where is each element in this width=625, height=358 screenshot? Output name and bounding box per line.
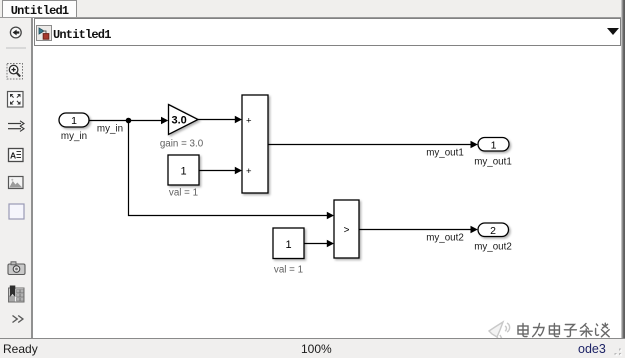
constant block C1 value 1 <box>168 155 199 185</box>
back button icon <box>10 27 21 38</box>
branch wire junction to relational <box>129 121 335 220</box>
wire relational to outport2 <box>359 226 478 234</box>
library icon <box>9 286 25 303</box>
speaker icon <box>489 322 510 340</box>
fit-to-view icon <box>8 92 24 108</box>
svg-text:+: + <box>246 166 252 177</box>
svg-text:val = 1: val = 1 <box>169 188 198 199</box>
svg-text:my_out1: my_out1 <box>474 157 512 168</box>
model canvas <box>33 46 621 338</box>
wire sum to outport1 <box>268 141 478 149</box>
svg-text:gain = 3.0: gain = 3.0 <box>160 139 204 150</box>
zoom tool icon <box>7 64 23 80</box>
svg-text:my_in: my_in <box>97 124 123 135</box>
area box icon <box>9 204 24 219</box>
gain block 3.0 <box>169 105 199 135</box>
annotation icon <box>9 149 24 162</box>
svg-text:my_out1: my_out1 <box>426 148 464 159</box>
svg-text:val = 1: val = 1 <box>274 265 303 276</box>
image icon <box>9 177 24 189</box>
expand chevrons <box>13 316 23 323</box>
constant block C2 value 1 <box>273 228 304 259</box>
svg-text:3.0: 3.0 <box>172 115 187 127</box>
svg-text:1: 1 <box>71 115 77 127</box>
sum block <box>242 95 268 193</box>
inport block my_in <box>59 113 89 127</box>
left tool palette <box>0 18 33 338</box>
子 <box>564 325 576 337</box>
relational operator block <box>334 200 359 258</box>
杂 <box>580 324 592 337</box>
status bar <box>0 338 625 358</box>
谈 <box>596 323 610 337</box>
力 <box>533 324 544 337</box>
breadcrumb bar <box>34 18 621 46</box>
signal arrows icon <box>8 121 24 132</box>
resize grip <box>608 344 624 357</box>
wire gain to sum <box>198 116 242 124</box>
电 <box>549 324 559 337</box>
wire inport to gain <box>89 117 168 125</box>
outport block 2 <box>478 223 509 237</box>
camera icon <box>8 262 25 275</box>
wire constant C1 to sum <box>199 167 242 175</box>
wire constant C2 to relational <box>304 240 334 248</box>
svg-text:2: 2 <box>490 225 496 237</box>
svg-text:my_out2: my_out2 <box>474 242 512 253</box>
watermark text 电力电子杂谈 <box>518 323 609 337</box>
wire junction node <box>126 118 132 124</box>
separator <box>6 47 26 49</box>
tab bar <box>0 0 625 18</box>
电 <box>518 324 528 337</box>
svg-text:my_out2: my_out2 <box>426 233 464 244</box>
watermark speaker icon and text <box>483 318 623 342</box>
svg-text:1: 1 <box>285 239 291 251</box>
svg-text:+: + <box>246 116 252 127</box>
svg-text:1: 1 <box>491 139 497 151</box>
outport block 1 <box>478 138 509 152</box>
svg-text:>: > <box>344 225 350 236</box>
svg-text:my_in: my_in <box>61 131 87 142</box>
svg-text:1: 1 <box>180 166 186 178</box>
